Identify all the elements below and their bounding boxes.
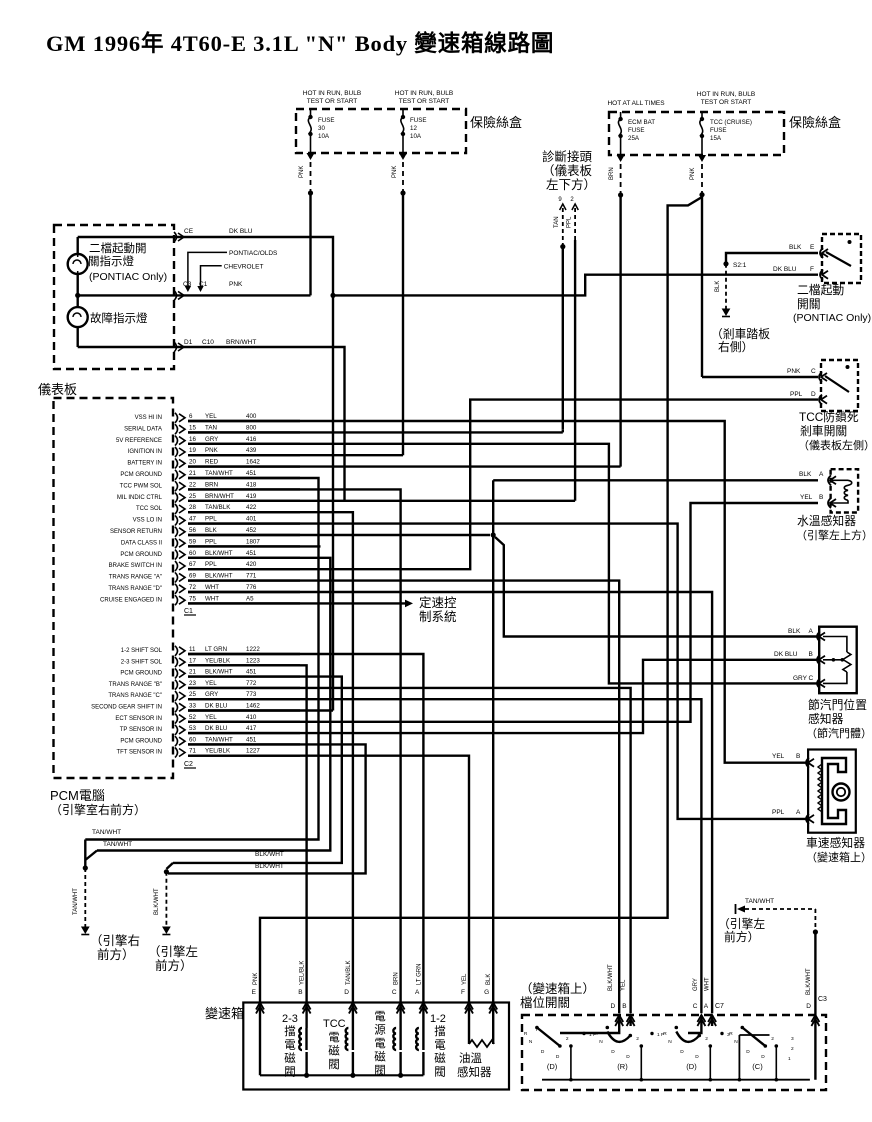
svg-text:BATTERY IN: BATTERY IN <box>127 461 162 467</box>
svg-text:D: D <box>761 1054 765 1060</box>
fuse TCC (CRUISE) FUSE 15A <box>701 112 703 119</box>
ground TAN/WHT engine right front <box>84 840 86 867</box>
svg-text:BLK/WHT: BLK/WHT <box>205 669 233 676</box>
svg-text:(PONTIAC Only): (PONTIAC Only) <box>793 312 871 324</box>
svg-text:TCC PWM SOL: TCC PWM SOL <box>120 483 163 489</box>
wire BLK to transmission G <box>492 535 494 1003</box>
svg-text:1462: 1462 <box>246 703 260 710</box>
svg-text:TRANS RANGE "A": TRANS RANGE "A" <box>109 575 162 581</box>
svg-text:（引擎室右前方）: （引擎室右前方） <box>50 802 146 817</box>
svg-text:772: 772 <box>246 680 257 687</box>
svg-text:(D): (D) <box>686 1062 697 1071</box>
svg-text:保險絲盒: 保險絲盒 <box>470 115 522 130</box>
svg-text:33: 33 <box>189 703 196 710</box>
svg-text:PPL: PPL <box>205 516 217 523</box>
svg-text:R: R <box>729 1031 733 1037</box>
svg-text:1222: 1222 <box>246 646 260 653</box>
svg-text:B: B <box>809 651 813 658</box>
svg-text:410: 410 <box>246 714 257 721</box>
wire YEL 772 pin23 <box>188 688 631 1013</box>
svg-text:20: 20 <box>189 459 196 466</box>
svg-text:60: 60 <box>189 736 196 743</box>
junction DK BLU <box>330 293 335 298</box>
wire GRY 416 5V ref <box>188 444 819 684</box>
svg-text:PCM GROUND: PCM GROUND <box>120 552 162 558</box>
wire BLK/WHT 451 C2 pin21 ground <box>173 677 342 863</box>
svg-text:419: 419 <box>246 493 257 500</box>
svg-text:（引擎左上方）: （引擎左上方） <box>796 528 872 542</box>
svg-text:（儀表板左側）: （儀表板左側） <box>798 438 872 452</box>
wire BRN 418 pin22 TCC PWM <box>188 489 401 1002</box>
svg-text:TAN/BLK: TAN/BLK <box>346 960 352 985</box>
svg-text:C3: C3 <box>818 996 827 1003</box>
switch range internals <box>560 1015 619 1033</box>
svg-text:800: 800 <box>246 424 257 431</box>
node range contact group (D) <box>535 1026 539 1030</box>
svg-text:16: 16 <box>189 436 196 443</box>
svg-text:磁: 磁 <box>284 1051 296 1065</box>
sensor VSS 車速感知器 <box>808 750 856 833</box>
svg-text:制系統: 制系統 <box>419 610 457 624</box>
svg-text:47: 47 <box>189 516 196 523</box>
svg-text:TRANS RANGE "D": TRANS RANGE "D" <box>108 586 162 592</box>
svg-text:HOT IN RUN, BULB: HOT IN RUN, BULB <box>303 90 361 97</box>
svg-text:水溫感知器: 水溫感知器 <box>797 514 856 528</box>
wire WHT 776 pin72 <box>188 592 712 1013</box>
svg-text:CHEVROLET: CHEVROLET <box>224 264 264 271</box>
svg-text:15A: 15A <box>710 135 722 142</box>
svg-text:PNK: PNK <box>690 168 696 180</box>
svg-text:磁: 磁 <box>374 1050 386 1064</box>
wire BRN/WHT 419 MIL <box>177 347 345 501</box>
svg-text:776: 776 <box>246 584 257 591</box>
svg-text:TAN/WHT: TAN/WHT <box>745 898 774 905</box>
svg-text:TFT SENSOR IN: TFT SENSOR IN <box>116 750 162 756</box>
splice <box>164 869 169 874</box>
wire TAN/BLK 422 pin28 TCC sol <box>188 512 353 1002</box>
svg-text:FUSE: FUSE <box>318 117 335 124</box>
wire BRN/RED from ECM BAT fuse to pin20 <box>617 155 625 162</box>
svg-text:檔位開關: 檔位開關 <box>520 995 570 1010</box>
svg-text:F: F <box>810 266 814 273</box>
pin transmission G BLK <box>489 1003 497 1010</box>
svg-text:TCC SOL: TCC SOL <box>136 506 163 512</box>
svg-text:B: B <box>796 753 800 760</box>
fuse ECM BAT FUSE 25A <box>620 112 622 119</box>
wire BLK/WHT 771 pin69 <box>188 581 619 1014</box>
wire BLK E to S2:1 <box>726 253 818 264</box>
svg-text:TAN: TAN <box>554 216 560 228</box>
svg-text:TAN/WHT: TAN/WHT <box>92 829 121 836</box>
svg-text:開關: 開關 <box>797 297 821 311</box>
lamp MIL 故障指示燈 <box>68 307 88 327</box>
svg-text:PNK: PNK <box>299 166 305 178</box>
svg-text:(PONTIAC Only): (PONTIAC Only) <box>89 271 167 283</box>
svg-text:N: N <box>668 1039 672 1045</box>
wire BLK drop <box>725 264 727 309</box>
svg-text:TCC (CRUISE): TCC (CRUISE) <box>710 119 752 126</box>
resistor TPS potentiometer <box>823 637 847 653</box>
svg-text:WHT: WHT <box>705 977 711 991</box>
svg-text:（剎車踏板: （剎車踏板 <box>711 327 770 341</box>
range switch box <box>522 1015 826 1090</box>
svg-text:C: C <box>693 1003 698 1010</box>
svg-text:56: 56 <box>189 527 196 534</box>
svg-text:TEST OR START: TEST OR START <box>399 98 450 105</box>
svg-text:F: F <box>536 1027 539 1033</box>
svg-text:ECM BAT: ECM BAT <box>628 119 655 126</box>
svg-text:感知器: 感知器 <box>808 712 844 726</box>
svg-text:SENSOR RETURN: SENSOR RETURN <box>110 529 162 535</box>
svg-text:10A: 10A <box>318 133 330 140</box>
wire TAN diagnostic pin 9 <box>560 204 566 210</box>
svg-text:C1: C1 <box>184 608 193 615</box>
svg-text:2-3 SHIFT SOL: 2-3 SHIFT SOL <box>121 659 163 665</box>
wire YEL/BLK 1223 pin17 <box>188 665 307 1002</box>
splice <box>83 865 88 870</box>
svg-text:1-2 SHIFT SOL: 1-2 SHIFT SOL <box>121 648 163 654</box>
svg-text:400: 400 <box>246 413 257 420</box>
transmission box 變速箱 <box>243 1003 509 1090</box>
svg-text:HOT IN RUN, BULB: HOT IN RUN, BULB <box>697 91 755 98</box>
svg-text:FUSE: FUSE <box>410 117 427 124</box>
svg-text:定速控: 定速控 <box>419 595 457 610</box>
svg-text:VSS HI IN: VSS HI IN <box>135 415 162 421</box>
svg-text:TAN/WHT: TAN/WHT <box>205 470 233 477</box>
svg-text:PCM GROUND: PCM GROUND <box>120 738 162 744</box>
svg-text:閥: 閥 <box>434 1066 446 1079</box>
svg-text:診斷接頭: 診斷接頭 <box>542 149 593 164</box>
svg-text:452: 452 <box>246 527 257 534</box>
wire PPL 401 VSS LO <box>188 524 807 819</box>
svg-text:關指示燈: 關指示燈 <box>88 254 134 268</box>
svg-text:451: 451 <box>246 470 257 477</box>
svg-text:擋: 擋 <box>284 1024 296 1038</box>
svg-text:TEST OR START: TEST OR START <box>701 99 752 106</box>
svg-text:右側）: 右側） <box>718 340 753 354</box>
svg-text:（變速箱上）: （變速箱上） <box>520 981 595 996</box>
switch TCC brake 防鎖死剎車開關 <box>821 360 858 411</box>
sensor trans oil temp 油溫感知器 <box>468 1003 470 1045</box>
ground BLK/WHT engine left front <box>166 863 173 869</box>
wire PNK fuse12 drop to pin19 <box>399 153 407 160</box>
svg-text:BLK: BLK <box>486 974 492 985</box>
svg-text:17: 17 <box>189 657 196 664</box>
svg-text:HOT AT ALL TIMES: HOT AT ALL TIMES <box>607 100 665 107</box>
svg-text:DK BLU: DK BLU <box>229 228 253 235</box>
wire DK BLU CE to second gear switch <box>177 237 333 295</box>
svg-text:VSS LO IN: VSS LO IN <box>133 518 162 524</box>
svg-text:YEL: YEL <box>800 494 813 501</box>
svg-text:BLK/WHT: BLK/WHT <box>255 863 284 870</box>
svg-text:71: 71 <box>189 748 196 755</box>
svg-text:（變速箱上）: （變速箱上） <box>806 850 872 864</box>
wire PNK branch to transmission E <box>260 197 702 1003</box>
svg-text:1642: 1642 <box>246 459 260 466</box>
svg-text:TP SENSOR IN: TP SENSOR IN <box>120 727 162 733</box>
svg-text:PNK: PNK <box>253 973 259 985</box>
svg-text:車速感知器: 車速感知器 <box>806 836 865 850</box>
svg-text:(R): (R) <box>617 1062 628 1071</box>
svg-text:GRY: GRY <box>205 436 218 443</box>
svg-text:PPL: PPL <box>205 538 217 545</box>
svg-text:BRN/WHT: BRN/WHT <box>226 339 256 346</box>
svg-text:25: 25 <box>189 691 196 698</box>
svg-text:C: C <box>392 989 397 996</box>
svg-text:電: 電 <box>328 1031 340 1044</box>
svg-text:773: 773 <box>246 691 257 698</box>
svg-text:TAN/WHT: TAN/WHT <box>103 841 132 848</box>
svg-text:B: B <box>298 989 302 996</box>
svg-text:源: 源 <box>374 1023 386 1037</box>
svg-text:D: D <box>541 1049 545 1055</box>
svg-text:C10: C10 <box>202 339 214 346</box>
pin transmission E PNK <box>256 1003 264 1010</box>
svg-text:D1: D1 <box>184 339 193 346</box>
svg-text:PNK: PNK <box>205 447 219 454</box>
svg-text:BLK: BLK <box>788 628 801 635</box>
svg-text:451: 451 <box>246 550 257 557</box>
svg-text:DK BLU: DK BLU <box>205 725 227 732</box>
instrument panel box 儀表板 <box>54 225 174 369</box>
PCM box <box>54 398 174 778</box>
wire PPL diagnostic pin 2 <box>572 204 578 210</box>
svg-text:電: 電 <box>374 1010 386 1023</box>
svg-text:1 P: 1 P <box>657 1032 664 1038</box>
wire BLK/WHT 451 pin60 ground <box>97 558 330 851</box>
svg-text:BLK/WHT: BLK/WHT <box>608 964 614 991</box>
svg-text:72: 72 <box>189 584 196 591</box>
svg-text:閥: 閥 <box>328 1058 340 1071</box>
svg-text:TEST OR START: TEST OR START <box>307 98 358 105</box>
svg-text:BRN: BRN <box>205 481 218 488</box>
svg-text:DATA CLASS II: DATA CLASS II <box>121 540 162 546</box>
svg-text:GRY: GRY <box>205 691 218 698</box>
wire TAN 800 pin15 <box>188 431 563 433</box>
svg-text:TAN/BLK: TAN/BLK <box>205 504 231 511</box>
svg-text:油溫: 油溫 <box>459 1051 482 1065</box>
svg-text:75: 75 <box>189 595 196 602</box>
svg-text:BLK: BLK <box>799 471 812 478</box>
wire range switch bus <box>542 1079 810 1081</box>
svg-text:PNK: PNK <box>787 368 801 375</box>
svg-text:（儀表板: （儀表板 <box>542 164 593 178</box>
svg-text:磁: 磁 <box>328 1044 340 1058</box>
svg-text:YEL/BLK: YEL/BLK <box>205 657 231 664</box>
svg-text:PNK: PNK <box>392 166 398 178</box>
svg-text:左下方）: 左下方） <box>546 177 596 192</box>
svg-text:HOT IN RUN, BULB: HOT IN RUN, BULB <box>395 90 453 97</box>
svg-text:BLK/WHT: BLK/WHT <box>205 573 233 580</box>
pin range switch B YEL <box>627 1015 635 1022</box>
solenoid 電源電磁閥 <box>399 1003 401 1029</box>
svg-text:GM 1996年 4T60-E 3.1L "N" Body: GM 1996年 4T60-E 3.1L "N" Body 變速箱線路圖 <box>46 30 554 56</box>
wire DK BLU 417 TP signal <box>188 660 819 733</box>
svg-text:25A: 25A <box>628 135 640 142</box>
svg-text:PCM GROUND: PCM GROUND <box>120 472 162 478</box>
node PONTIAC/OLDS selector <box>188 252 227 290</box>
svg-text:TAN/WHT: TAN/WHT <box>205 736 233 743</box>
pin transmission C BRN <box>397 1003 405 1010</box>
svg-text:YEL: YEL <box>772 753 785 760</box>
wire RED 1642 pin20 <box>188 465 621 467</box>
wire DK BLU 1462 pin33 <box>188 709 333 711</box>
svg-text:DK BLU: DK BLU <box>773 266 797 273</box>
svg-text:420: 420 <box>246 561 257 568</box>
resistor ECT element <box>832 479 848 481</box>
svg-text:BLK: BLK <box>789 244 802 251</box>
svg-text:417: 417 <box>246 725 257 732</box>
svg-text:22: 22 <box>189 481 196 488</box>
svg-text:N: N <box>529 1039 533 1045</box>
fuse FUSE 12 10A <box>402 109 404 117</box>
solenoid TCC 電磁閥 <box>352 1003 354 1029</box>
svg-text:5V REFERENCE: 5V REFERENCE <box>116 438 162 444</box>
svg-text:WHT: WHT <box>205 595 219 602</box>
svg-text:N: N <box>599 1039 603 1045</box>
svg-text:PNK: PNK <box>229 281 243 288</box>
svg-text:YEL/BLK: YEL/BLK <box>205 748 231 755</box>
svg-text:BLK/WHT: BLK/WHT <box>154 888 160 915</box>
svg-text:WHT: WHT <box>205 584 219 591</box>
svg-text:FUSE: FUSE <box>628 127 645 134</box>
svg-text:BRN/WHT: BRN/WHT <box>205 493 234 500</box>
svg-text:CE: CE <box>184 228 194 235</box>
wire PPL 1807 pin59 <box>188 545 321 547</box>
svg-text:28: 28 <box>189 504 196 511</box>
svg-text:A: A <box>704 1003 709 1010</box>
svg-text:N: N <box>734 1039 738 1045</box>
svg-text:前方）: 前方） <box>724 930 759 944</box>
svg-text:11: 11 <box>189 646 196 653</box>
svg-text:C: C <box>811 368 816 375</box>
svg-text:FUSE: FUSE <box>710 127 727 134</box>
svg-text:變速箱: 變速箱 <box>205 1006 244 1021</box>
svg-text:SERIAL DATA: SERIAL DATA <box>124 426 162 432</box>
svg-text:SECOND GEAR SHIFT IN: SECOND GEAR SHIFT IN <box>91 705 162 711</box>
svg-text:PPL: PPL <box>790 391 803 398</box>
svg-text:IGNITION IN: IGNITION IN <box>128 449 162 455</box>
wire BLK/WHT range switch ground <box>814 932 816 1015</box>
wire lamp1-lamp2 <box>76 274 78 307</box>
svg-text:（節汽門體）: （節汽門體） <box>806 726 872 740</box>
pin transmission D TAN/BLK <box>349 1003 357 1010</box>
svg-text:401: 401 <box>246 516 257 523</box>
wire YEL/BLK 1227 pin71 TFT <box>188 756 469 1003</box>
svg-text:A: A <box>796 809 801 816</box>
svg-text:2: 2 <box>705 1036 708 1042</box>
sensor TPS 節汽門位置感知器 <box>819 627 857 694</box>
svg-text:剎車開關: 剎車開關 <box>800 424 847 438</box>
wiper <box>823 659 842 661</box>
svg-text:52: 52 <box>189 714 196 721</box>
pin transmission B YEL/BLK <box>303 1003 311 1010</box>
svg-text:GRY: GRY <box>793 675 808 682</box>
wire lamp2 bottom <box>76 327 78 347</box>
wire BLK A sensor return <box>493 479 818 481</box>
svg-text:（引擎左: （引擎左 <box>718 917 765 931</box>
svg-text:1807: 1807 <box>246 538 260 545</box>
svg-text:D: D <box>811 391 816 398</box>
svg-text:D: D <box>610 1003 615 1010</box>
switch second gear start 二檔起動開關 <box>822 234 861 283</box>
wire BLK branch to TPS A <box>495 537 819 637</box>
svg-text:69: 69 <box>189 573 196 580</box>
svg-text:30: 30 <box>318 125 325 132</box>
svg-text:D: D <box>344 989 349 996</box>
svg-text:2: 2 <box>791 1046 794 1052</box>
svg-text:電: 電 <box>284 1039 296 1052</box>
svg-text:感知器: 感知器 <box>457 1065 492 1079</box>
svg-text:(D): (D) <box>547 1062 558 1071</box>
wire range group C stub <box>738 1035 740 1080</box>
wire BRN/WHT pin25 row <box>188 500 575 502</box>
svg-text:D: D <box>680 1049 684 1055</box>
svg-text:DK BLU: DK BLU <box>205 703 227 710</box>
svg-text:TAN: TAN <box>205 424 217 431</box>
wire PPL 420 brake switch D <box>188 400 818 570</box>
svg-text:B: B <box>819 494 823 501</box>
wire PNK inside panel <box>78 294 177 296</box>
svg-text:TCC防鎖死: TCC防鎖死 <box>799 410 859 424</box>
node range contact group (C) <box>741 1026 745 1030</box>
svg-text:R: R <box>524 1031 528 1037</box>
svg-text:TRANS RANGE "B": TRANS RANGE "B" <box>109 682 162 688</box>
pin transmission A LT GRN <box>419 1003 427 1010</box>
svg-text:416: 416 <box>246 436 257 443</box>
svg-text:電: 電 <box>434 1039 446 1052</box>
svg-text:GRY: GRY <box>693 978 699 991</box>
svg-text:D: D <box>806 1003 811 1010</box>
pin range switch D BLK/WHT right (C3) <box>811 1015 819 1022</box>
splice S <box>699 192 704 197</box>
svg-text:YEL: YEL <box>205 714 217 721</box>
svg-text:1-2: 1-2 <box>430 1013 446 1025</box>
svg-text:D: D <box>746 1049 750 1055</box>
svg-text:6: 6 <box>189 413 193 420</box>
fuse FUSE 30 10A <box>310 109 312 117</box>
svg-text:F: F <box>461 989 465 996</box>
svg-text:儀表板: 儀表板 <box>38 382 77 397</box>
svg-text:LT GRN: LT GRN <box>416 964 422 985</box>
svg-text:15: 15 <box>189 424 196 431</box>
wire PNK TCC fuse drop <box>698 155 706 162</box>
svg-text:BLK/WHT: BLK/WHT <box>255 851 284 858</box>
svg-text:YEL/BLK: YEL/BLK <box>300 961 306 985</box>
pin range switch C GRY <box>697 1015 705 1022</box>
svg-text:2: 2 <box>636 1036 639 1042</box>
svg-text:25: 25 <box>189 493 196 500</box>
VSS reluctor <box>822 758 846 824</box>
svg-text:A: A <box>415 989 420 996</box>
wire PNK fuse30 drop <box>307 153 315 160</box>
svg-text:A5: A5 <box>246 595 254 602</box>
fuse box 2 <box>609 112 784 155</box>
splice <box>813 929 818 934</box>
splice S2:1 <box>723 261 728 266</box>
svg-text:磁: 磁 <box>434 1051 446 1065</box>
svg-text:(C): (C) <box>752 1062 763 1071</box>
svg-text:BLK: BLK <box>715 281 721 292</box>
wire lamp1 top <box>76 237 78 254</box>
junction sensor return <box>491 532 496 537</box>
svg-text:10A: 10A <box>410 133 422 140</box>
svg-text:1: 1 <box>788 1056 791 1062</box>
svg-text:21: 21 <box>189 470 196 477</box>
splice <box>308 190 313 195</box>
svg-text:BRN: BRN <box>609 167 615 180</box>
svg-text:19: 19 <box>189 447 196 454</box>
